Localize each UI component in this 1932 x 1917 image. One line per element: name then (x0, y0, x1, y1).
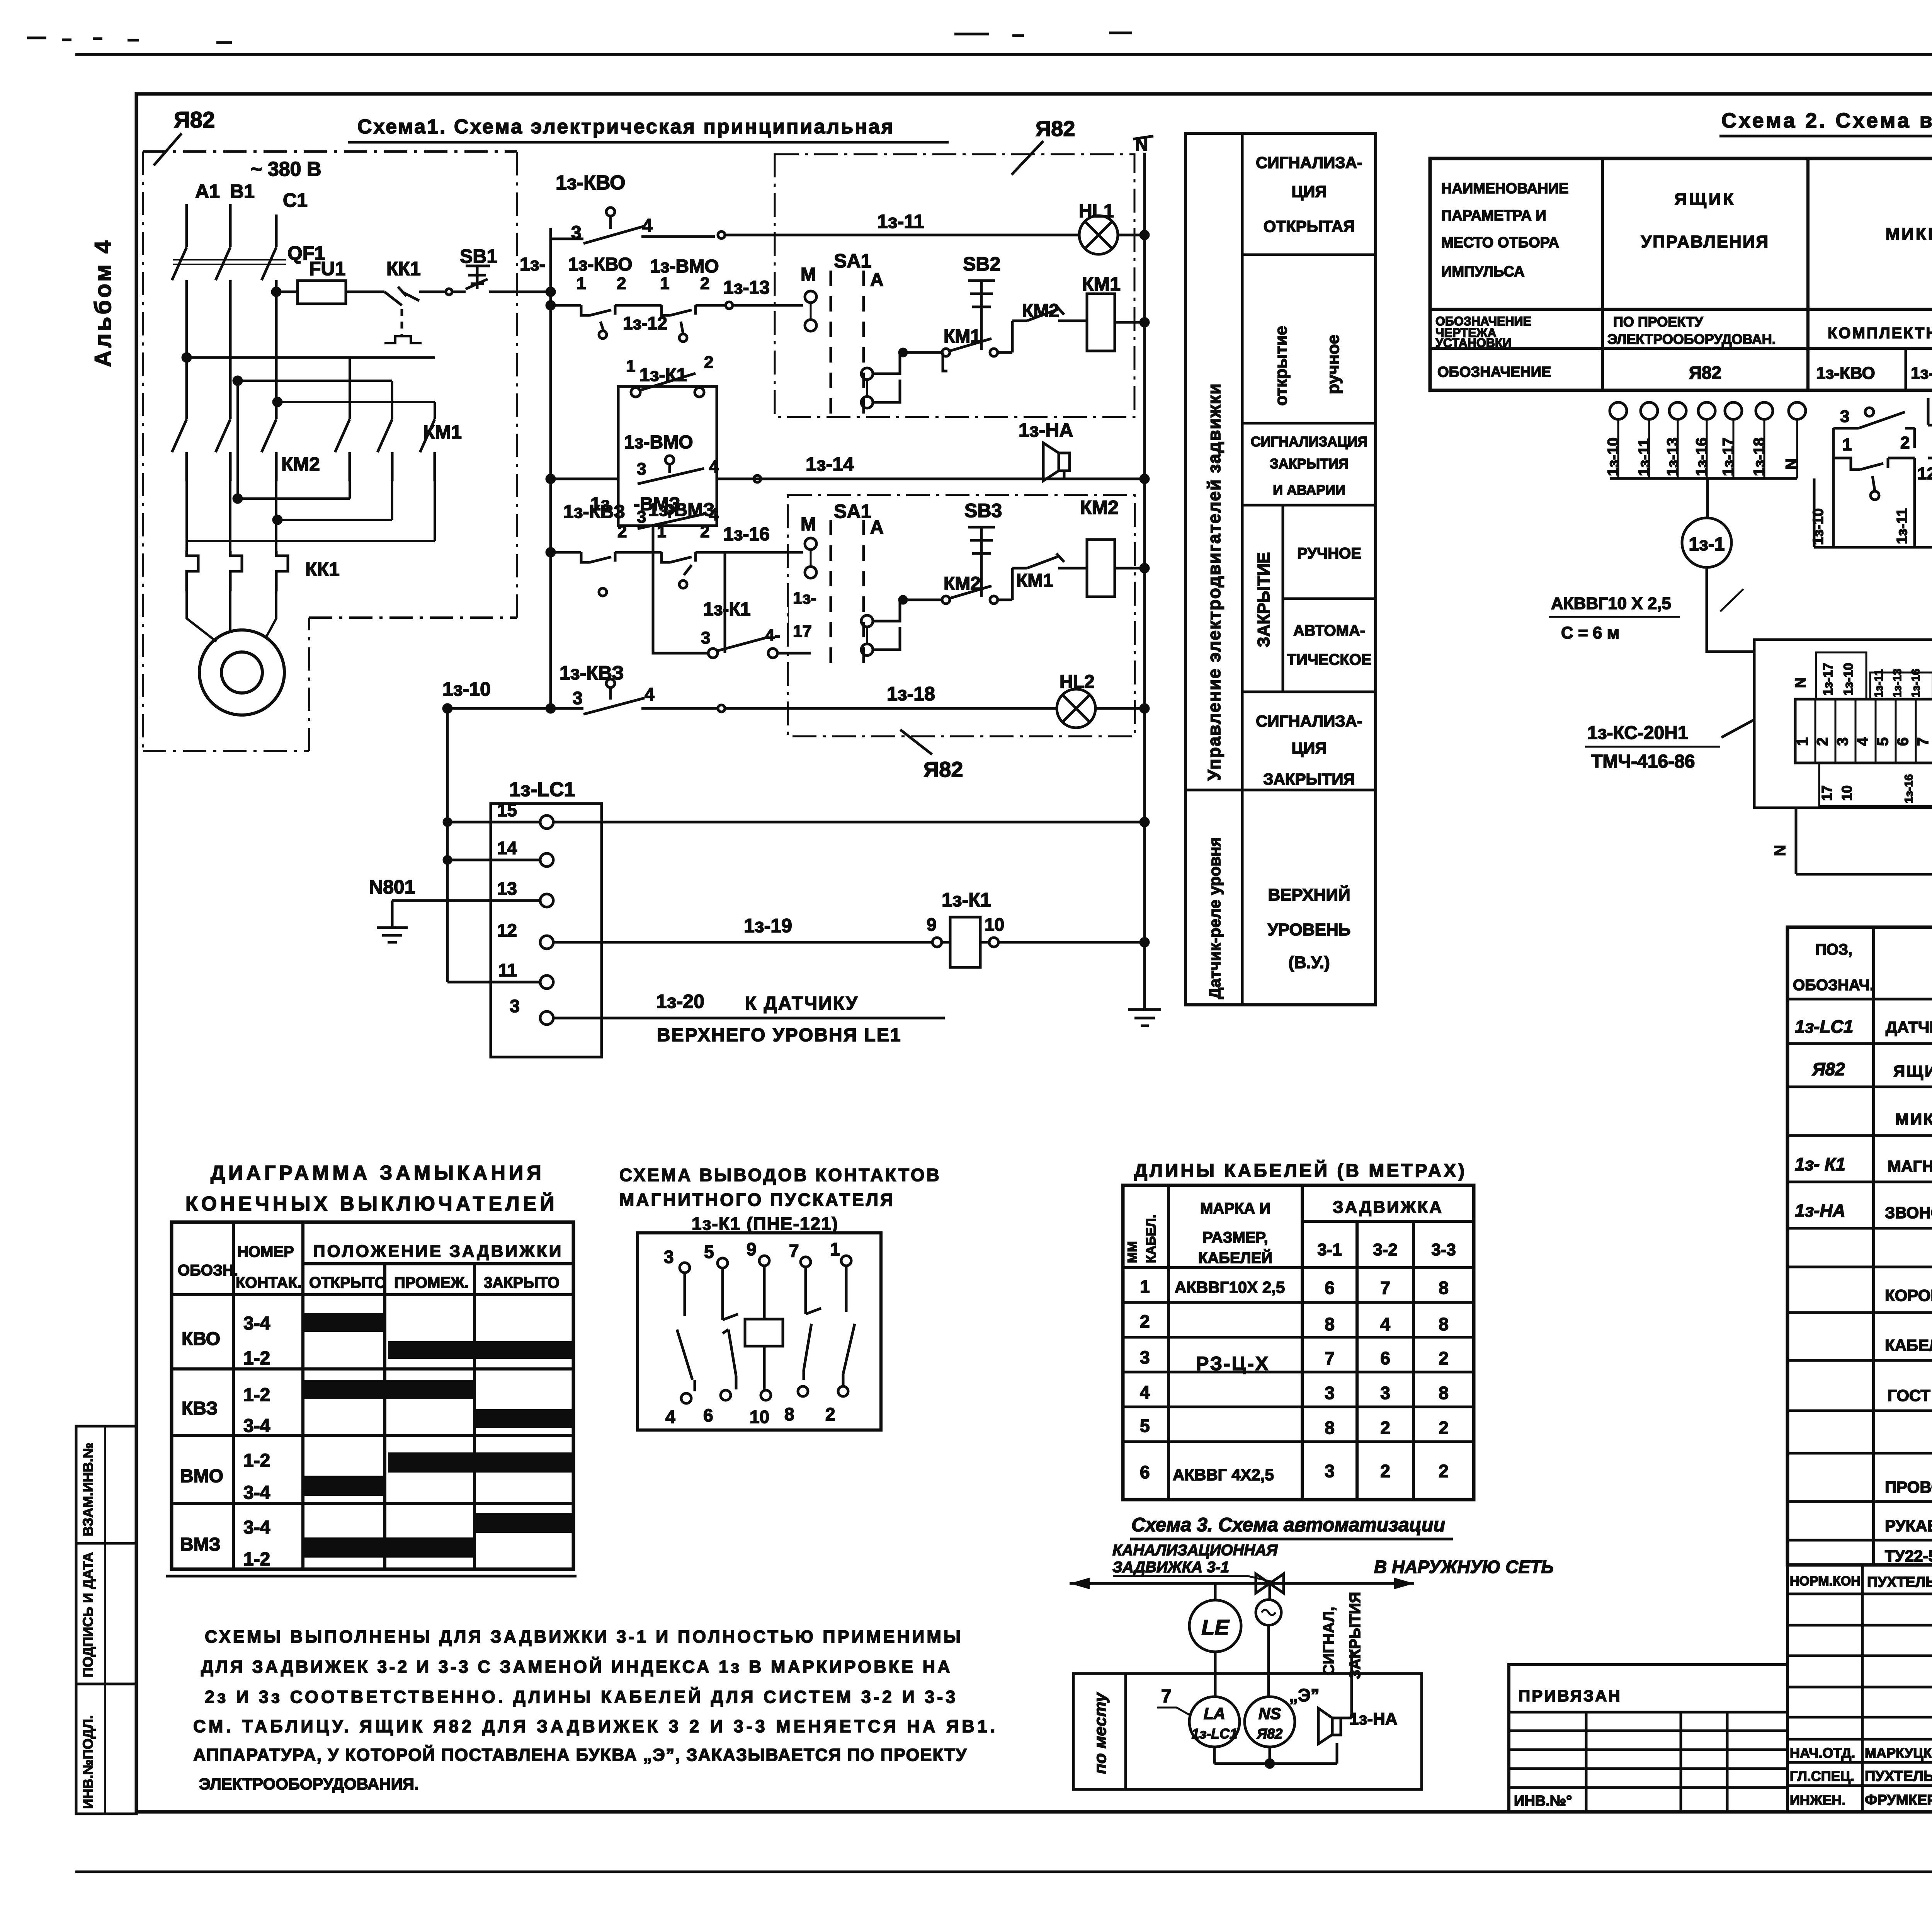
KVZ 1-2 microswitch (551, 552, 662, 562)
svg-text:СИГНАЛИЗА-: СИГНАЛИЗА- (1256, 153, 1362, 172)
thermal contact KK1 (384, 287, 444, 305)
svg-text:К ДАТЧИКУ: К ДАТЧИКУ (745, 993, 859, 1014)
pin 4 (681, 1393, 691, 1403)
svg-text:НАИМЕНОВАНИЕ: НАИМЕНОВАНИЕ (1441, 180, 1568, 197)
svg-text:АКВВГ10Х 2,5: АКВВГ10Х 2,5 (1175, 1278, 1285, 1296)
svg-text:1з-ВМЗ: 1з-ВМЗ (648, 500, 714, 520)
svg-text:4: 4 (1140, 1382, 1150, 1402)
svg-text:1з-ВМО: 1з-ВМО (624, 432, 693, 453)
svg-text:ДАТЧИК-РЕЛЕ УРОВНЯ РОС-301: ДАТЧИК-РЕЛЕ УРОВНЯ РОС-301 ~220 В (1886, 1018, 1932, 1036)
svg-text:1з-10: 1з-10 (1810, 508, 1827, 545)
svg-text:ЗАДВИЖКА 3-1: ЗАДВИЖКА 3-1 (1112, 1559, 1229, 1576)
rung6 connector (718, 705, 725, 712)
motor drive tilde (1262, 1610, 1276, 1615)
phase wire B (229, 204, 232, 247)
svg-text:1-2: 1-2 (243, 1385, 270, 1405)
circle stems (1618, 419, 1797, 478)
bus to cable 1з-1 (1706, 478, 1709, 518)
svg-text:КК1: КК1 (386, 258, 421, 279)
microswitch bottom bus (1814, 478, 1932, 547)
svg-text:АКВВГ10 Х 2,5: АКВВГ10 Х 2,5 (1551, 594, 1671, 613)
function table sub divider (1282, 505, 1284, 692)
motor M1 outer (199, 630, 284, 715)
svg-text:8: 8 (1325, 1314, 1335, 1334)
circle row bus (1610, 477, 1797, 480)
selector A contacts (861, 368, 873, 380)
svg-text:1з-18: 1з-18 (887, 683, 935, 705)
function table left divider (1241, 133, 1244, 1005)
motor drive circle (1256, 1600, 1281, 1625)
pipe left arrowhead (1070, 1578, 1090, 1589)
svg-text:1з-LC1: 1з-LC1 (1192, 1726, 1237, 1742)
rail ground (1128, 1010, 1161, 1026)
svg-text:LА: LА (1204, 1704, 1225, 1723)
svg-text:1з-К1: 1з-К1 (942, 889, 991, 911)
rung1 connector (718, 232, 725, 238)
component table columns (1874, 927, 1932, 1565)
schema 2 table outer (1430, 158, 1932, 390)
junction box leader (1721, 720, 1754, 737)
stub to terminal 11 (447, 981, 540, 984)
right rail N (1143, 153, 1146, 1010)
svg-text:1: 1 (660, 274, 669, 293)
svg-text:В НАРУЖНУЮ СЕТЬ: В НАРУЖНУЮ СЕТЬ (1374, 1557, 1554, 1577)
button SB1 (453, 266, 498, 292)
svg-text:3-4: 3-4 (243, 1313, 270, 1334)
coil 1з-К1 (950, 917, 980, 967)
svg-text:17: 17 (1819, 785, 1835, 801)
A branch wiring lower (873, 600, 900, 650)
fuse FU1 (298, 281, 346, 304)
svg-text:1з-КВЗ: 1з-КВЗ (563, 502, 625, 522)
svg-text:3-2: 3-2 (1373, 1240, 1398, 1259)
svg-text:3: 3 (664, 1247, 674, 1267)
svg-text:М: М (801, 264, 816, 285)
svg-text:1з-17: 1з-17 (1720, 438, 1737, 476)
wire 1з-19 (553, 941, 932, 944)
svg-text:ПРОМЕЖ.: ПРОМЕЖ. (394, 1274, 469, 1291)
svg-text:УРОВЕНЬ: УРОВЕНЬ (1268, 920, 1351, 939)
svg-text:1з-13: 1з-13 (1664, 438, 1681, 476)
instrument NS (1245, 1697, 1295, 1747)
selector dashed columns upper (831, 271, 864, 419)
svg-text:ВЕРХНЕГО УРОВНЯ LЕ1: ВЕРХНЕГО УРОВНЯ LЕ1 (657, 1025, 902, 1045)
svg-text:2з И 3з СООТВЕТСТВЕННО. ДЛИН: 2з И 3з СООТВЕТСТВЕННО. ДЛИНЫ КАБЕЛЕЙ ДЛ… (205, 1687, 958, 1707)
svg-text:открытие: открытие (1272, 326, 1291, 406)
svg-text:ОТКРЫТАЯ: ОТКРЫТАЯ (1264, 217, 1355, 235)
svg-text:ЯЩИК: ЯЩИК (1675, 190, 1736, 209)
svg-text:1з- К1: 1з- К1 (1795, 1154, 1845, 1174)
svg-text:МАГНИТНОГО ПУСКАТЕЛЯ: МАГНИТНОГО ПУСКАТЕЛЯ (619, 1190, 895, 1210)
svg-text:ПО ПРОЕКТУ: ПО ПРОЕКТУ (1613, 314, 1703, 330)
SB2 branch line (900, 351, 943, 354)
contact KM2 NC (1012, 306, 1088, 321)
junction dot C phase (272, 288, 280, 296)
svg-text:С = 6 м: С = 6 м (1561, 623, 1619, 642)
svg-text:ФРУМКЕР: ФРУМКЕР (1865, 1792, 1932, 1808)
instrument LA (1189, 1697, 1240, 1747)
box upper label group 2 (1870, 672, 1932, 699)
bell 1з-НА (1043, 443, 1070, 481)
svg-text:SА1: SА1 (834, 250, 871, 272)
motor M1 inner (221, 652, 262, 693)
signature table rows (1787, 1594, 1932, 1786)
svg-text:КВЗ: КВЗ (182, 1398, 218, 1419)
closure table columns (233, 1222, 474, 1569)
svg-text:8: 8 (1439, 1383, 1449, 1403)
svg-text:1з-16: 1з-16 (1903, 774, 1915, 803)
rung3 wire 1з-14 (551, 478, 1145, 480)
schema 2 title underline (1719, 135, 1932, 138)
svg-text:МЕСТО ОТБОРА: МЕСТО ОТБОРА (1441, 235, 1559, 251)
lamp HL2 to rail (1095, 707, 1145, 710)
KK1 reset dashes (401, 309, 403, 336)
svg-text:СИГНАЛИЗА-: СИГНАЛИЗА- (1256, 712, 1362, 730)
link table columns (1586, 1712, 1727, 1812)
closure table header lines (172, 1264, 573, 1295)
left margin strip box (76, 1426, 136, 1814)
rung5 wire (653, 526, 708, 653)
svg-text:ОБОЗН.: ОБОЗН. (178, 1262, 238, 1279)
svg-text:1-2: 1-2 (243, 1348, 270, 1369)
svg-text:3: 3 (637, 460, 646, 478)
svg-text:3АКРЫТО: 3АКРЫТО (484, 1274, 560, 1291)
svg-text:КОНТАК.: КОНТАК. (236, 1274, 302, 1291)
svg-text:(В.У.): (В.У.) (1288, 953, 1330, 972)
wire drive to NS (1267, 1625, 1270, 1697)
svg-text:НОРМ.КОН: НОРМ.КОН (1790, 1574, 1861, 1588)
phase wires below breaker (187, 287, 276, 419)
svg-text:1з-: 1з- (520, 254, 546, 275)
svg-text:ПУХТЕЛЬ: ПУХТЕЛЬ (1867, 1574, 1932, 1590)
svg-text:3-3: 3-3 (1431, 1240, 1456, 1259)
svg-text:1-2: 1-2 (243, 1549, 270, 1570)
valve stem (1269, 1583, 1271, 1600)
svg-text:ЦИЯ: ЦИЯ (1291, 182, 1327, 201)
svg-text:1з-19: 1з-19 (744, 915, 792, 936)
wire LE to LA (1214, 1652, 1217, 1697)
svg-text:В1: В1 (230, 180, 255, 202)
closure table outer (172, 1222, 573, 1569)
wire N801 to terminal 13 (392, 899, 540, 902)
svg-text:АКВВГ 4Х2,5: АКВВГ 4Х2,5 (1173, 1466, 1274, 1484)
svg-text:ГЛ.СПЕЦ.: ГЛ.СПЕЦ. (1790, 1768, 1854, 1784)
bus dot rung2 (547, 301, 554, 309)
phase wire C (275, 215, 278, 247)
cable slash (1720, 589, 1743, 611)
svg-text:1з-16: 1з-16 (1693, 438, 1710, 476)
breaker tie bar (173, 260, 286, 264)
bar КВО 3-4 (303, 1313, 385, 1332)
svg-text:10: 10 (750, 1407, 769, 1427)
function table row lines (1185, 255, 1376, 790)
svg-text:7: 7 (789, 1241, 799, 1261)
svg-text:1з-LС1: 1з-LС1 (509, 778, 575, 801)
svg-text:ТУ22-5570-83: ТУ22-5570-83 (1885, 1547, 1932, 1565)
svg-text:12: 12 (1917, 464, 1932, 483)
svg-text:6: 6 (1325, 1278, 1335, 1298)
svg-text:НАЧ.ОТД.: НАЧ.ОТД. (1790, 1745, 1855, 1761)
svg-text:2: 2 (1140, 1311, 1150, 1331)
svg-text:КАБЕЛЬ КОНТРОЛЬНЫЙ С АЛЮМИНИЕВ: КАБЕЛЬ КОНТРОЛЬНЫЙ С АЛЮМИНИЕВЫМИ ЖИЛАМИ (1885, 1336, 1932, 1354)
svg-text:ДИАГРАММА ЗАМЫКАНИЯ: ДИАГРАММА ЗАМЫКАНИЯ (211, 1162, 545, 1184)
instrument bottom bus (1214, 1743, 1337, 1764)
wires to motor (187, 591, 276, 642)
svg-text:1з-20: 1з-20 (656, 991, 704, 1012)
svg-text:3: 3 (1834, 737, 1851, 746)
svg-text:3-1: 3-1 (1317, 1240, 1342, 1259)
cable label rule (1549, 616, 1680, 618)
svg-text:1з-11: 1з-11 (1872, 669, 1885, 698)
svg-text:С1: С1 (283, 189, 308, 211)
svg-text:9: 9 (927, 914, 937, 935)
enclosure B leader (900, 730, 932, 754)
wire to lower selector (725, 552, 803, 653)
enclosure A dash-dot (775, 154, 1134, 417)
selector M contacts lower (805, 538, 816, 550)
svg-text:1з-10: 1з-10 (1841, 663, 1856, 696)
pipe line (1070, 1582, 1414, 1585)
svg-text:LЕ: LЕ (1201, 1615, 1230, 1639)
svg-text:14: 14 (497, 838, 517, 858)
svg-text:2: 2 (700, 522, 709, 541)
rung2 connector (726, 302, 733, 309)
svg-text:ТИЧЕСКОЕ: ТИЧЕСКОЕ (1287, 651, 1371, 668)
svg-text:по месту: по месту (1091, 1692, 1110, 1774)
svg-text:3: 3 (637, 507, 646, 526)
stub to terminal 14 (447, 859, 540, 861)
svg-text:РУЧНОЕ: РУЧНОЕ (1297, 545, 1361, 562)
svg-text:2: 2 (1900, 433, 1910, 452)
svg-text:МИКРОВЫКЛЮЧАТЕЛИ: МИКРОВЫКЛЮЧАТЕЛИ (1886, 225, 1932, 243)
svg-text:КМ2: КМ2 (281, 453, 320, 475)
leader 7 (1157, 1708, 1190, 1715)
svg-text:N: N (1772, 845, 1789, 856)
svg-text:ПРИВЯЗАН: ПРИВЯЗАН (1519, 1687, 1622, 1705)
coil KM1 (1087, 294, 1115, 351)
svg-text:КМ1: КМ1 (423, 421, 462, 443)
contactor KM1 main contacts (335, 419, 435, 481)
link table rows (1509, 1731, 1787, 1788)
feed wire to fuse (276, 291, 298, 293)
svg-text:КМ1: КМ1 (1082, 273, 1121, 295)
box lower label group (1819, 763, 1932, 806)
svg-text:1-2: 1-2 (243, 1451, 270, 1471)
svg-text:5: 5 (704, 1242, 714, 1262)
KM1 aux contact (942, 349, 950, 356)
svg-text:13: 13 (497, 878, 517, 899)
function table outer (1185, 133, 1376, 1005)
bar ВМО 1-2 (388, 1452, 573, 1473)
svg-text:КАБЕЛ.: КАБЕЛ. (1144, 1214, 1158, 1263)
coil KM1 to rail (1115, 321, 1145, 324)
svg-text:8: 8 (1325, 1418, 1335, 1438)
svg-text:2: 2 (704, 353, 713, 372)
lamp HL1 to rail (1118, 234, 1145, 237)
breaker QF1 poles (172, 247, 276, 287)
svg-text:ПРОВОД С МЕДНОЙ ЖИЛОЙ ГОСТ632: ПРОВОД С МЕДНОЙ ЖИЛОЙ ГОСТ6323-79 ПВ1 1Х… (1885, 1478, 1932, 1496)
svg-text:1: 1 (626, 357, 635, 376)
svg-text:1з-14: 1з-14 (806, 453, 854, 475)
svg-text:6: 6 (1380, 1348, 1390, 1368)
svg-text:SА1: SА1 (834, 501, 871, 522)
svg-text:ТМЧ-416-86: ТМЧ-416-86 (1591, 751, 1695, 772)
svg-text:УСТАНОВКИ: УСТАНОВКИ (1435, 336, 1512, 350)
svg-text:МАРКА И: МАРКА И (1200, 1200, 1270, 1217)
cable table columns (1168, 1185, 1413, 1500)
svg-text:7: 7 (1380, 1278, 1390, 1298)
svg-text:КОНЕЧНЫХ ВЫКЛЮЧАТЕЛЕЙ: КОНЕЧНЫХ ВЫКЛЮЧАТЕЛЕЙ (185, 1192, 558, 1215)
wire SB1 to bus (498, 291, 551, 293)
svg-text:1з-18: 1з-18 (1751, 438, 1768, 476)
svg-text:2: 2 (700, 274, 709, 293)
svg-text:7: 7 (1915, 737, 1932, 746)
svg-text:СИГНАЛИЗАЦИЯ: СИГНАЛИЗАЦИЯ (1251, 434, 1367, 449)
pin 2 (838, 1386, 848, 1396)
svg-text:4: 4 (645, 684, 655, 704)
branch up to coil line (943, 321, 1012, 371)
svg-text:1: 1 (1842, 435, 1852, 454)
svg-text:ВМО: ВМО (180, 1466, 223, 1486)
svg-text:SВ3: SВ3 (964, 500, 1002, 521)
cable table header lines (1123, 1221, 1474, 1268)
sheet trim bottom edge (75, 1871, 1932, 1873)
svg-text:6: 6 (703, 1405, 713, 1425)
svg-text:ПУХТЕЛЬ: ПУХТЕЛЬ (1865, 1768, 1932, 1784)
svg-text:ЗАКРЫТИЕ: ЗАКРЫТИЕ (1254, 552, 1273, 647)
svg-text:12: 12 (497, 920, 517, 940)
cable table outer (1123, 1185, 1474, 1500)
svg-text:СХЕМЫ ВЫПОЛНЕНЫ ДЛЯ ЗАДВИЖК: СХЕМЫ ВЫПОЛНЕНЫ ДЛЯ ЗАДВИЖКИ 3-1 И ПОЛНО… (205, 1627, 963, 1646)
sheet trim top edge (75, 53, 1932, 56)
scan marks top-left (27, 33, 1132, 43)
bar КВЗ 3-4 (474, 1409, 573, 1428)
svg-text:SВ2: SВ2 (963, 253, 1000, 275)
svg-text:А1: А1 (195, 180, 220, 202)
svg-text:КОРОБКА СОЕДИНИТЕЛЬНАЯ ТУ36,25: КОРОБКА СОЕДИНИТЕЛЬНАЯ ТУ36,2568-83Е КС-… (1885, 1286, 1932, 1304)
svg-text:1з-16: 1з-16 (1910, 669, 1922, 698)
svg-text:SВ1: SВ1 (460, 245, 497, 267)
svg-text:ЯЩИК УПРАВЛЕНИЯ: ЯЩИК УПРАВЛЕНИЯ (1893, 1062, 1932, 1080)
svg-text:Я82: Я82 (923, 757, 963, 781)
schema 1 title underline (348, 141, 949, 144)
schema 2 table columns (1602, 158, 1932, 390)
box upper label group 1 (1816, 652, 1866, 699)
svg-text:Схема 3. Схема автоматизации: Схема 3. Схема автоматизации (1131, 1514, 1445, 1536)
svg-text:КАБЕЛЕЙ: КАБЕЛЕЙ (1198, 1249, 1272, 1267)
KVO 1-2 microswitch (551, 305, 662, 315)
svg-text:1з-КВО: 1з-КВО (556, 172, 626, 194)
svg-text:МАРКУЦКИЙ: МАРКУЦКИЙ (1865, 1745, 1932, 1761)
svg-text:2: 2 (1439, 1348, 1449, 1368)
svg-text:3: 3 (1380, 1383, 1390, 1403)
svg-text:8: 8 (1439, 1278, 1449, 1298)
KK1 reset step (384, 336, 422, 343)
svg-text:КОМПЛЕКТНО С ЗАДВИЖКОЙ: КОМПЛЕКТНО С ЗАДВИЖКОЙ (1828, 324, 1932, 342)
pin 10 (763, 1346, 766, 1389)
instrument LE (1189, 1600, 1241, 1652)
svg-text:ВЗАМ.ИНВ.№: ВЗАМ.ИНВ.№ (80, 1443, 96, 1536)
bar ВМЗ 1-2 (303, 1537, 473, 1558)
svg-text:~ 380 В: ~ 380 В (250, 158, 321, 180)
svg-text:1з-11: 1з-11 (1636, 438, 1653, 476)
svg-text:3-4: 3-4 (243, 1517, 270, 1538)
svg-text:ДЛЯ ЗАДВИЖЕК 3-2 И 3-3 С ЗАМ: ДЛЯ ЗАДВИЖЕК 3-2 И 3-3 С ЗАМЕНОЙ ИНДЕКСА… (201, 1657, 952, 1677)
junction dots bottom (234, 495, 241, 502)
svg-text:3: 3 (1840, 407, 1849, 426)
svg-text:N: N (1783, 458, 1800, 470)
svg-text:2: 2 (617, 274, 626, 293)
selector dashed columns lower (831, 520, 864, 669)
junction box КС-20 (1754, 640, 1932, 808)
svg-text:Схема 2. Схема внешних элек: Схема 2. Схема внешних электрических про… (1721, 109, 1932, 132)
svg-text:8: 8 (1439, 1314, 1449, 1334)
svg-text:ПОЛОЖЕНИЕ ЗАДВИЖКИ: ПОЛОЖЕНИЕ ЗАДВИЖКИ (313, 1242, 563, 1261)
svg-text:ЗАДВИЖКА: ЗАДВИЖКА (1333, 1198, 1443, 1217)
svg-text:4: 4 (1854, 737, 1871, 746)
svg-text:1з-НА: 1з-НА (1019, 419, 1073, 441)
bar КВЗ 1-2 (303, 1380, 473, 1399)
svg-text:7: 7 (1325, 1348, 1335, 1368)
wire KK1 to SB1 (444, 291, 445, 293)
strip dividers (1815, 699, 1932, 763)
svg-text:4-: 4- (765, 626, 780, 645)
svg-text:3-4: 3-4 (243, 1483, 270, 1503)
contact KM1 NC (1012, 553, 1088, 568)
stub to terminal 15 (447, 821, 540, 824)
svg-text:Я82: Я82 (174, 107, 215, 133)
svg-text:1з-К1 (ПНЕ-121): 1з-К1 (ПНЕ-121) (692, 1214, 838, 1234)
svg-text:ГОСТ 1508-78* Е: ГОСТ 1508-78* Е (1888, 1386, 1932, 1405)
svg-text:ИНВ.№°: ИНВ.№° (1514, 1793, 1572, 1809)
bar ВМО 3-4 (303, 1476, 385, 1496)
wire terminal 15 to rail (553, 821, 1145, 824)
svg-text:ЗАКРЫТИЯ: ЗАКРЫТИЯ (1263, 770, 1355, 788)
wire fuse to KK1 (346, 291, 384, 293)
svg-text:Альбом 4: Альбом 4 (90, 238, 116, 367)
signal wire (1341, 1650, 1352, 1718)
svg-text:8: 8 (784, 1404, 794, 1424)
svg-text:ПАРАМЕТРА И: ПАРАМЕТРА И (1441, 208, 1546, 224)
svg-text:А: А (870, 517, 884, 538)
svg-text:FU1: FU1 (309, 258, 345, 279)
selector M contacts (805, 291, 816, 303)
signature table (1787, 1565, 1932, 1812)
svg-text:ПОДПИСЬ И ДАТА: ПОДПИСЬ И ДАТА (80, 1552, 96, 1677)
reversing link top (187, 358, 435, 499)
svg-text:1з-КВО: 1з-КВО (1816, 364, 1875, 383)
ground N801 (377, 901, 408, 942)
wire 1з-18 (725, 707, 1057, 710)
svg-text:6: 6 (1895, 737, 1912, 746)
svg-text:1з-10: 1з-10 (442, 678, 491, 700)
svg-text:КК1: КК1 (305, 558, 340, 580)
VMZ 1-2 microswitch (662, 552, 725, 575)
wire 1з-20 (553, 1017, 945, 1020)
svg-text:ВЕРХНИЙ: ВЕРХНИЙ (1268, 885, 1350, 904)
svg-text:ОТКРЫТО: ОТКРЫТО (309, 1274, 386, 1291)
bottom bus node (1266, 1760, 1274, 1767)
svg-text:Я82: Я82 (1812, 1059, 1845, 1079)
svg-text:1з-LС1: 1з-LС1 (1795, 1016, 1853, 1037)
lamp HL1 (1079, 216, 1118, 254)
closure table bottom second line (166, 1575, 577, 1578)
phase wire A (185, 204, 188, 247)
enclosure A leader (1012, 141, 1043, 175)
bus dot rung3 (547, 475, 554, 483)
svg-text:1з-КВО: 1з-КВО (568, 254, 633, 275)
svg-text:1з-1: 1з-1 (1689, 534, 1725, 555)
